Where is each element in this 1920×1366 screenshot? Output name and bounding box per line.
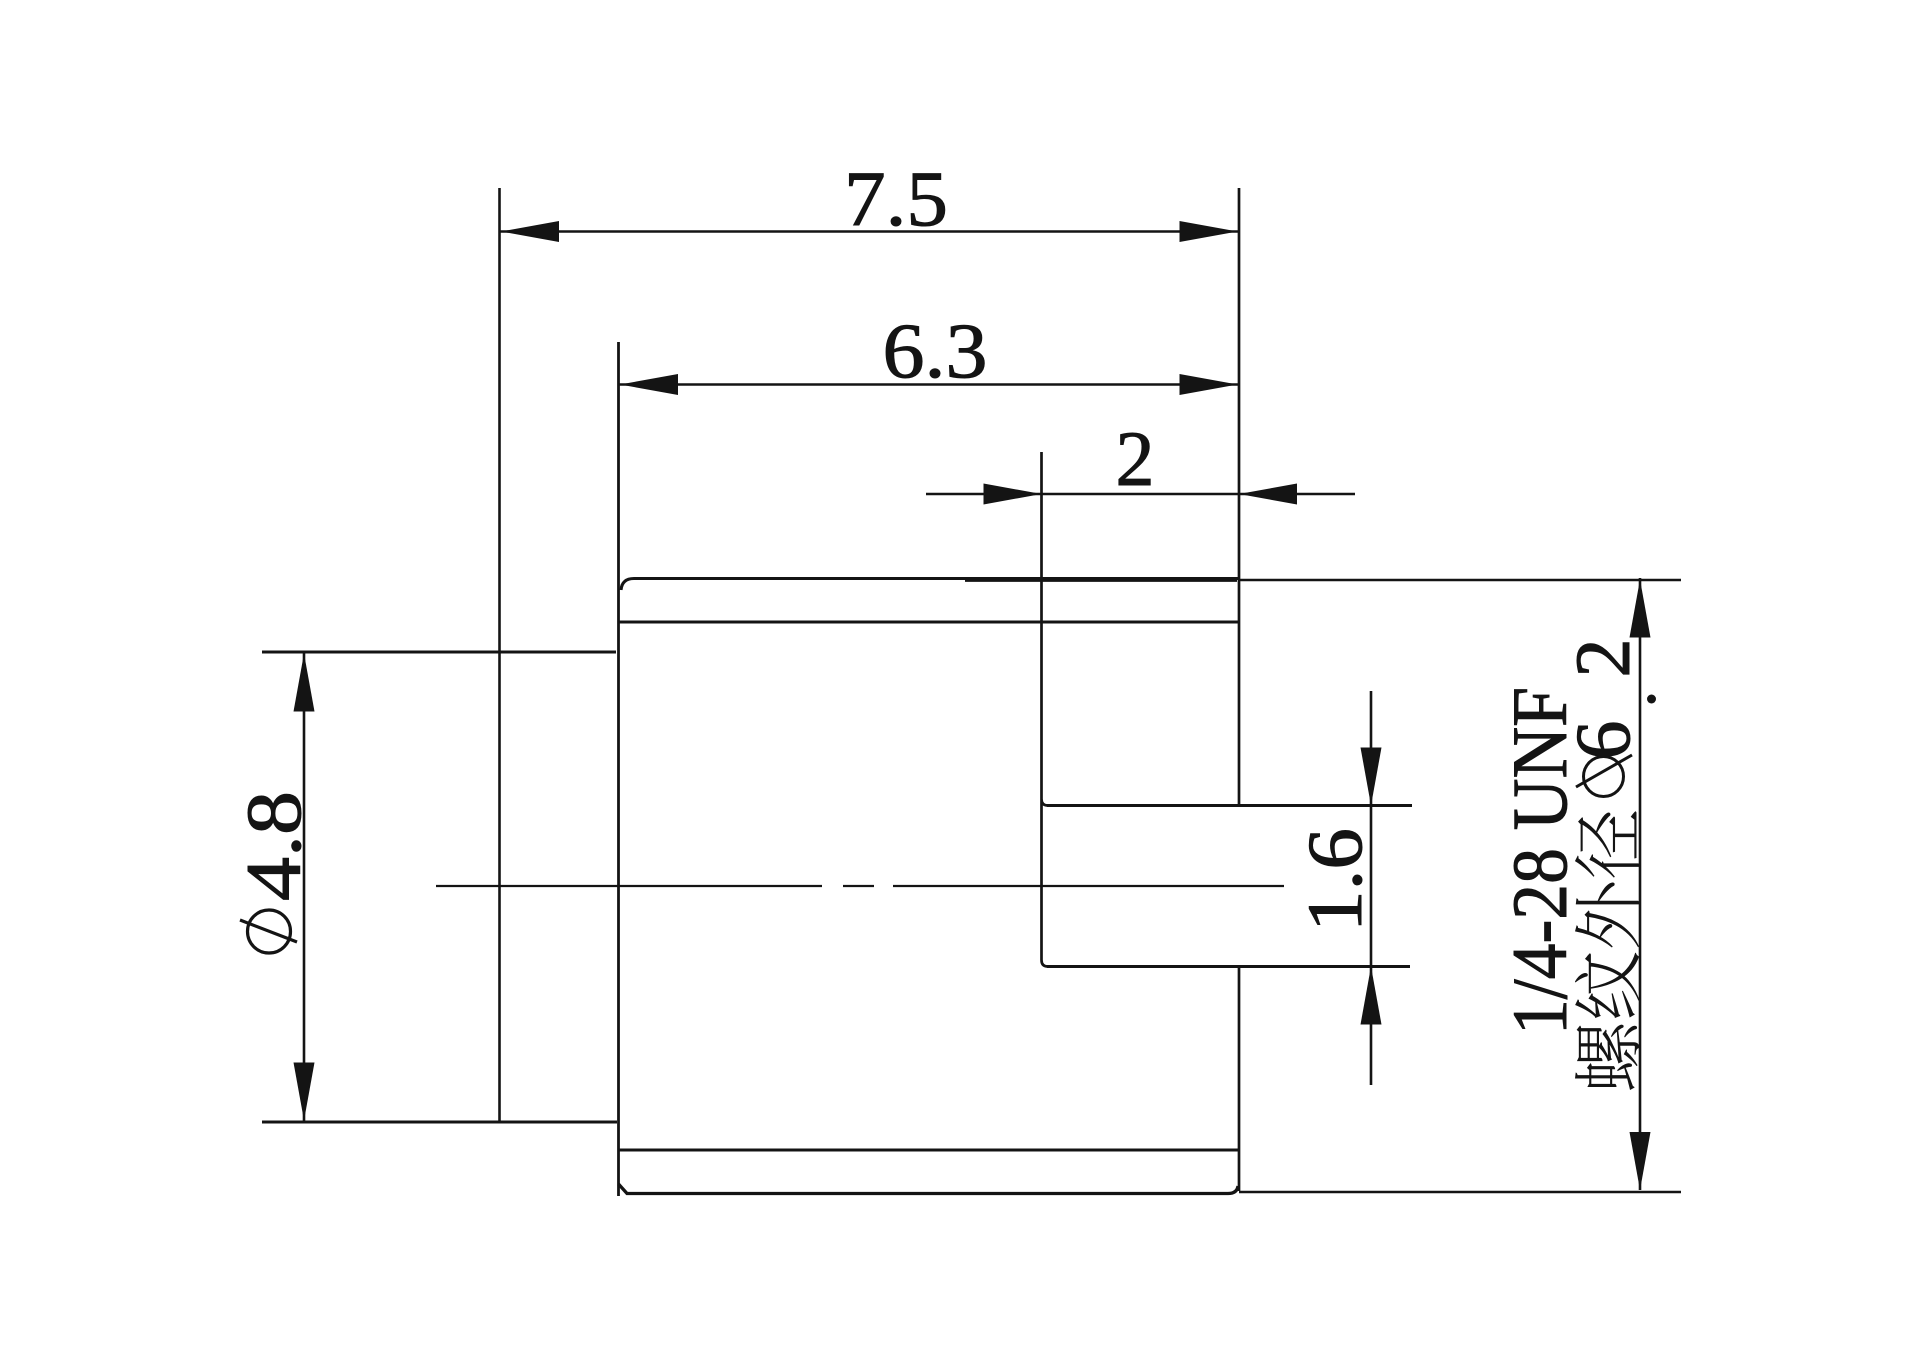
part: slot top edge xyxy=(1047,804,1412,807)
part: main body right face below slot xyxy=(1238,967,1241,1192)
dimension O6.2 line xyxy=(1639,578,1642,1190)
part: main body top edge xyxy=(621,579,1238,591)
svg-text:2: 2 xyxy=(1559,639,1646,678)
dimension O4.8 line xyxy=(303,652,306,1122)
part: threaded stud top edge (also ext line of dim O6.2) xyxy=(1239,579,1681,582)
thread note line 2: phi symbol (circle+slash) xyxy=(1576,755,1632,797)
dimension 6.3 right arrow xyxy=(1180,374,1238,395)
dimension O6.2 top arrow xyxy=(1630,580,1651,638)
dimension 7.5 right arrow xyxy=(1180,221,1238,242)
dimension O6.2 bottom arrow xyxy=(1630,1132,1651,1190)
part: main body left edge (also ext line of dim 6.3) xyxy=(617,342,620,1196)
thread note line 2 CJK char 纹 (rotated glyph outline) xyxy=(1575,953,1640,1018)
dimension O4.8 text: phi symbol (circle+slash) xyxy=(240,910,297,953)
thread note line 2 CJK char 外 (rotated glyph outline) xyxy=(1575,882,1640,947)
dimension 2 left arrow xyxy=(984,484,1042,505)
dimension O4.8 top arrow xyxy=(294,654,315,712)
dimension 6.3 left arrow xyxy=(620,374,678,395)
part: threaded stud bottom edge (also ext line of dim O6.2) xyxy=(1239,1191,1681,1194)
part: main body top edge overlap segment xyxy=(965,578,1237,582)
part: main body upper flat line xyxy=(619,620,1240,623)
svg-text:6.3: 6.3 xyxy=(883,307,988,394)
dimension 6.3 line xyxy=(619,383,1240,386)
dimension 2 line (arrows outside) xyxy=(926,493,1355,496)
dimension 1.6 upper arrow xyxy=(1361,748,1382,806)
part: left cylinder O4.8 bottom edge (also ext line of dim O4.8) xyxy=(262,1120,617,1123)
part: main body right face above slot (also ext line of dims 7.5/6.3/2) xyxy=(1238,188,1241,806)
part: left end face (also ext line of dim 7.5) xyxy=(498,188,501,1122)
svg-text:1.6: 1.6 xyxy=(1291,828,1378,932)
part: main body bottom edge xyxy=(619,1184,1239,1194)
svg-text:6: 6 xyxy=(1559,721,1646,760)
thread note line 2 CJK char 径 (rotated glyph outline) xyxy=(1575,811,1640,877)
svg-text:4.8: 4.8 xyxy=(230,791,317,901)
dimension 1.6 line (arrows outside) xyxy=(1370,691,1373,1085)
part: main body lower flat line xyxy=(619,1148,1240,1151)
part: slot closed end (also ext line of dim 2) xyxy=(1042,452,1049,967)
part: slot bottom edge xyxy=(1047,965,1410,968)
svg-text:7.5: 7.5 xyxy=(844,155,948,242)
centerline (part axis) xyxy=(436,885,1284,887)
dimension 1.6 lower arrow xyxy=(1361,967,1382,1025)
thread note line 2: decimal point xyxy=(1647,695,1656,704)
dimension 7.5 left arrow xyxy=(501,221,559,242)
svg-text:2: 2 xyxy=(1116,415,1155,502)
part: left cylinder O4.8 top edge (also ext line of dim O4.8) xyxy=(262,650,616,653)
dimension O4.8 bottom arrow xyxy=(294,1063,315,1121)
dimension 7.5 line xyxy=(500,230,1240,233)
thread note line 2 CJK char 螺 (rotated glyph outline) xyxy=(1575,1025,1640,1090)
dimension 2 right arrow xyxy=(1239,484,1297,505)
